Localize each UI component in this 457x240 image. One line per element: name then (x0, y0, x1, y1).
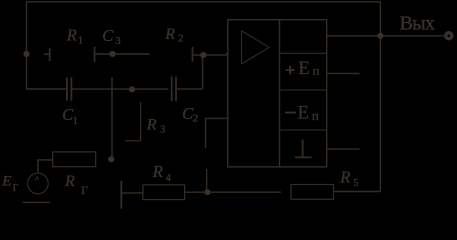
wire feedback vertical right (379, 2, 381, 192)
svg-text:R: R (152, 162, 163, 181)
ground symbol inside op-amp (295, 140, 312, 158)
op-amp triangle (242, 31, 270, 64)
node A left junction (23, 51, 29, 57)
arrow inside Eg (35, 177, 39, 180)
svg-text:2: 2 (193, 113, 199, 125)
svg-text:R: R (64, 173, 75, 190)
capacitor C2 (171, 77, 173, 102)
svg-text:C: C (102, 26, 114, 45)
wire top segment left (44, 53, 50, 55)
resistor R1 right plate (94, 47, 96, 62)
svg-text:1: 1 (73, 115, 79, 127)
svg-text:E: E (298, 104, 309, 124)
svg-text:E: E (1, 174, 11, 190)
label R3 (146, 117, 166, 136)
node G output junction (377, 33, 383, 39)
plate terminal left of R4 (120, 181, 122, 209)
label C1 (62, 105, 78, 127)
resistor R2 right plate (192, 47, 194, 62)
node D Rg node (108, 156, 114, 162)
wire top border (27, 1, 381, 3)
label C2 (182, 104, 198, 125)
svg-text:1: 1 (78, 34, 84, 46)
wire +Ep stub (327, 72, 360, 74)
svg-text:п: п (312, 108, 319, 123)
svg-text:4: 4 (166, 173, 171, 184)
output terminal (444, 31, 453, 40)
svg-text:E: E (298, 59, 309, 79)
wire bottom-left horizontal (27, 88, 67, 90)
svg-text:2: 2 (178, 33, 183, 44)
resistor Rg (53, 152, 96, 167)
wire left border (26, 2, 28, 89)
svg-text:R: R (146, 117, 157, 134)
capacitor C1 (66, 77, 68, 100)
wire R4 to R5 (185, 191, 281, 193)
label C3 (102, 26, 121, 47)
wire bottom right to R5 (334, 191, 381, 193)
wire vertical C2-junction up to top wire (202, 55, 204, 89)
svg-text:Г: Г (13, 183, 19, 194)
label +Ep (286, 59, 320, 79)
op-amp cell line 2 (280, 89, 327, 91)
svg-text:R: R (66, 25, 77, 44)
op-amp cell line 3 (280, 129, 327, 131)
label Rg (64, 173, 88, 197)
label R1 (66, 25, 83, 46)
wire Eg lead up and right (38, 160, 53, 173)
node E C1-C2 junction (129, 86, 135, 92)
node F R4-R5 junction (204, 189, 210, 195)
resistor R3 (partial bracket) (125, 102, 141, 141)
node B R1-C3 junction (109, 51, 115, 57)
resistor R1 left plate (49, 48, 51, 61)
wire C1 to C2 (72, 88, 168, 90)
node C R2-C2 junction (200, 52, 206, 58)
label Eg (1, 174, 18, 194)
label R5 (339, 168, 358, 189)
label R4 (152, 162, 171, 184)
op-amp U1 box (228, 20, 327, 167)
wire C2 right (176, 88, 202, 90)
svg-text:3: 3 (115, 35, 121, 47)
wire ground stub (327, 148, 360, 150)
ground line under Eg (23, 201, 50, 203)
op-amp cell line 1 (280, 52, 327, 54)
wire inverting input stub (205, 117, 228, 119)
svg-text:R: R (164, 26, 175, 43)
resistor R4 (143, 185, 185, 200)
svg-text:R: R (339, 168, 350, 187)
svg-text:Г: Г (81, 185, 88, 197)
label R2 (164, 26, 183, 44)
svg-text:3: 3 (160, 125, 165, 136)
resistor R5 (291, 185, 334, 200)
svg-text:п: п (313, 63, 320, 78)
wire output (327, 35, 444, 37)
wire top segment into op-amp (193, 53, 228, 56)
wire vertical to R4/R5 node (lower part) (206, 169, 208, 192)
wire vertical from input stub down (upper part) (205, 118, 207, 148)
label -Ep (285, 104, 319, 124)
wire top segment middle (95, 53, 150, 55)
svg-text:Вых: Вых (400, 13, 435, 35)
wire plate to R4 (122, 192, 143, 194)
wire vertical node C3/R3 down to Rg node (111, 77, 113, 159)
svg-text:5: 5 (354, 178, 359, 189)
generator Eg circle (28, 173, 49, 194)
op-amp inner divider (279, 20, 281, 167)
